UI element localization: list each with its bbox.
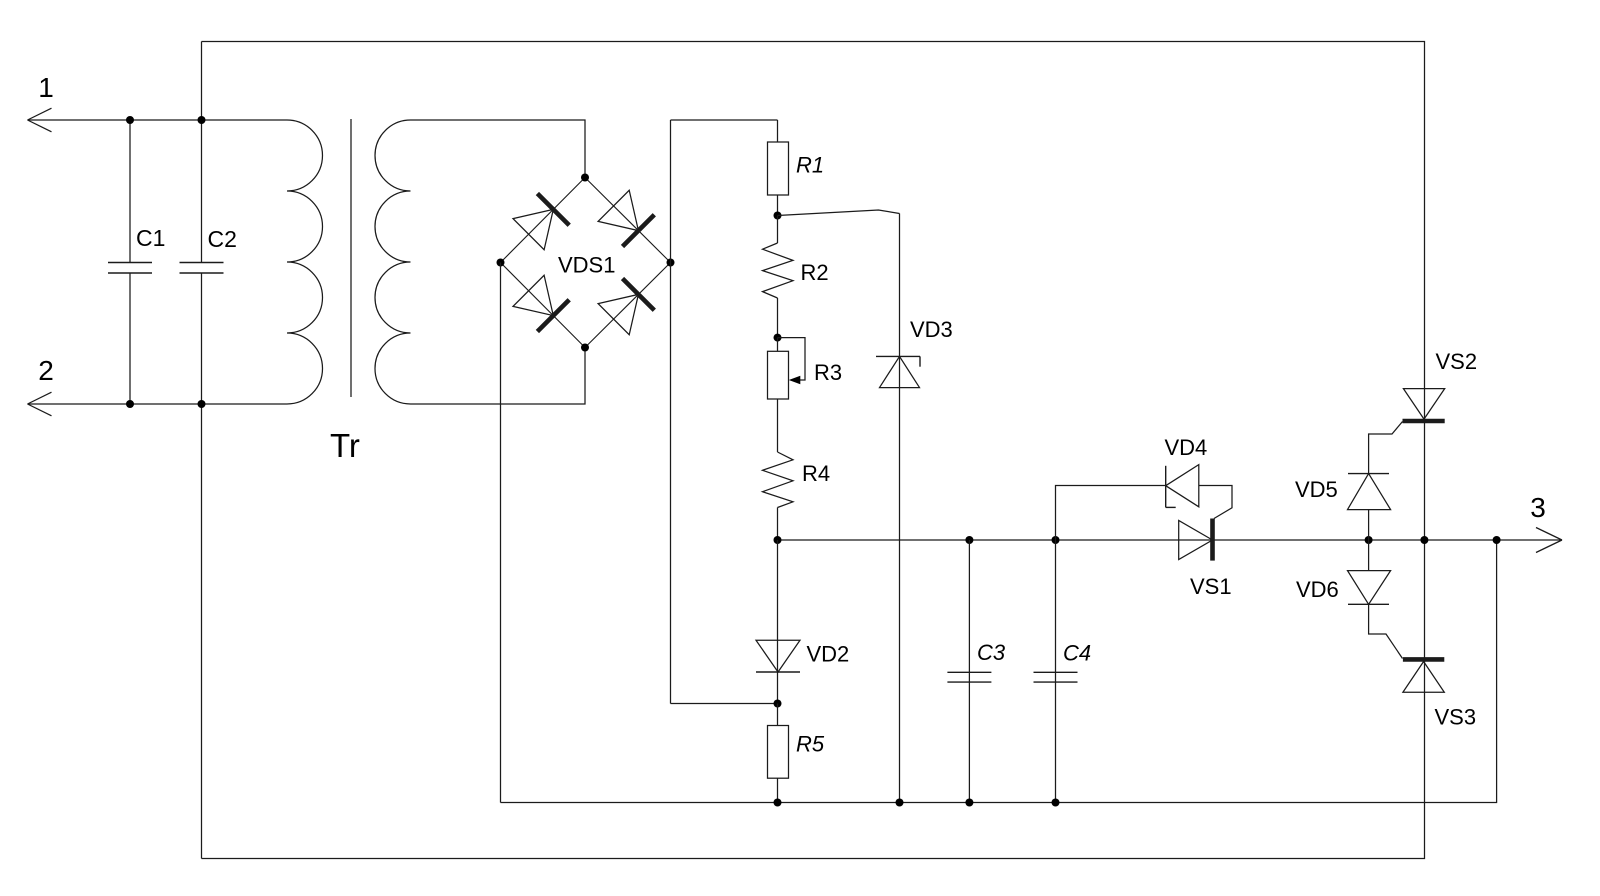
junction dot bridge left node (497, 259, 505, 267)
bridge diode VDS1 bottom-left (513, 275, 570, 332)
svg-text:1: 1 (38, 72, 54, 103)
wire main horizontal bus (778, 539, 1563, 541)
svg-text:R3: R3 (814, 360, 842, 385)
bridge diode VDS1 top-left (513, 193, 570, 250)
capacitor C4 (1055, 540, 1057, 803)
svg-text:C3: C3 (977, 640, 1006, 665)
zener diode VD3 (876, 355, 920, 357)
svg-text:C1: C1 (136, 225, 165, 251)
bridge diode VDS1 bottom-right (598, 278, 655, 335)
junction dot R1 bottom node (774, 212, 782, 220)
thyristor VS3 (1403, 657, 1444, 662)
junction dot C2 top (198, 116, 206, 124)
junction dot bridge top node (581, 174, 589, 182)
potentiometer R3 (777, 338, 779, 352)
wire bridge left node down to bottom bus (500, 263, 502, 803)
svg-text:VD3: VD3 (910, 317, 953, 342)
junction dot bus at C4 (1052, 536, 1060, 544)
svg-text:VD5: VD5 (1295, 477, 1338, 502)
svg-text:R1: R1 (796, 153, 824, 178)
junction dot C1 bottom (126, 400, 134, 408)
terminal 1 arrowhead (28, 108, 52, 120)
svg-text:C2: C2 (208, 226, 237, 252)
diode VD5 (1348, 473, 1389, 475)
svg-text:Tr: Tr (330, 427, 360, 464)
svg-text:C4: C4 (1063, 641, 1091, 666)
junction dot VD3 bottom (896, 799, 904, 807)
junction dot C3 bottom (965, 799, 973, 807)
node terminal 2 wire (28, 403, 288, 405)
wire VS2 gate to VD5 (1369, 422, 1403, 474)
bridge diode VDS1 top-right (598, 190, 655, 247)
transformer Tr primary winding (287, 120, 323, 404)
wire bottom bus (501, 540, 1497, 803)
junction dot C2 bottom (198, 400, 206, 408)
junction dot bus at VS2-VS3 line (1420, 536, 1428, 544)
transformer Tr core (350, 119, 352, 397)
resistor R1 (777, 120, 779, 142)
thyristor VS1 (1179, 521, 1213, 560)
svg-text:VDS1: VDS1 (558, 253, 615, 278)
transformer Tr secondary winding (375, 120, 411, 404)
junction dot C4 bottom (1052, 799, 1060, 807)
wire VD3 branch vertical (899, 214, 901, 803)
wire secondary bottom to bridge bottom node (411, 348, 586, 405)
svg-text:VS2: VS2 (1436, 349, 1478, 374)
svg-text:3: 3 (1530, 492, 1546, 523)
svg-text:VS1: VS1 (1190, 574, 1232, 599)
wire outer frame top/right/bottom border (202, 42, 1425, 859)
junction dot bridge bottom node (581, 344, 589, 352)
wire R1 bottom node to VD3 top (slanted) (778, 210, 900, 216)
terminal 3 arrowhead (1536, 528, 1562, 541)
resistor R5 (777, 704, 779, 726)
wire top corner to R1 (671, 119, 778, 121)
svg-text:R2: R2 (801, 260, 829, 285)
wire R4 node down through VD2 (777, 540, 779, 704)
potentiometer R3 wiper (778, 338, 806, 380)
junction dot VD2 bottom node (774, 700, 782, 708)
diode VD6 (1368, 540, 1370, 571)
wire VD6 to VS3 gate (1369, 604, 1403, 658)
wire C4 node up to VD4 (1056, 486, 1166, 541)
resistor R2 (777, 216, 779, 244)
junction dot R2-R3 node (774, 334, 782, 342)
wire VD2 junction horizontal (671, 703, 778, 705)
node terminal 1 wire (28, 119, 288, 121)
junction dot bus at VD5-VD6 (1365, 536, 1373, 544)
wire VD4 to VS1 gate (1199, 486, 1232, 519)
junction dot bridge right node (667, 259, 675, 267)
wire left border upper segment (to C2 top plate) (201, 42, 203, 263)
svg-text:2: 2 (38, 355, 54, 386)
junction dot bus at down-wire (1493, 536, 1501, 544)
wire secondary top to bridge top node (411, 120, 586, 178)
svg-text:VD2: VD2 (807, 642, 850, 667)
diode bridge VDS1 diamond edges (501, 178, 671, 348)
capacitor C1 (129, 120, 131, 263)
zener diode VD4 (1165, 466, 1167, 508)
wire bridge right node vertical (top corner to VD2 junction) (670, 120, 672, 704)
wire left border lower segment (from C2 bottom plate) (201, 273, 203, 859)
svg-text:VD4: VD4 (1165, 435, 1208, 460)
capacitor C3 (968, 540, 970, 803)
svg-text:R5: R5 (796, 732, 825, 757)
diode VD2 (756, 640, 800, 672)
junction dot bus at C3 (965, 536, 973, 544)
svg-text:VD6: VD6 (1296, 577, 1339, 602)
svg-text:VS3: VS3 (1435, 705, 1477, 730)
junction dot R5 bottom (774, 799, 782, 807)
terminal 2 arrowhead (28, 392, 52, 404)
thyristor VS2 (1403, 389, 1444, 420)
svg-text:R4: R4 (802, 461, 830, 486)
junction dot C1 top (126, 116, 134, 124)
capacitor C2 plates (180, 262, 224, 264)
resistor R4 (763, 452, 794, 508)
junction dot bus at R4 (774, 536, 782, 544)
